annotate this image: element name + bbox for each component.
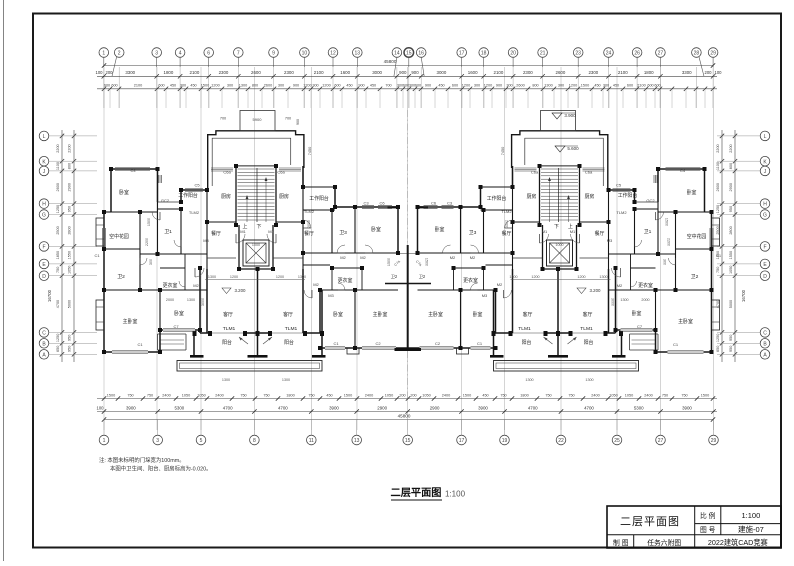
living room sliding doors TLM1 right-unit — [606, 332, 616, 334]
svg-text:2600: 2600 — [716, 183, 720, 191]
svg-text:H: H — [763, 202, 767, 208]
svg-text:950: 950 — [68, 206, 72, 212]
svg-text:更衣室: 更衣室 — [338, 277, 353, 284]
svg-text:14: 14 — [394, 51, 400, 57]
svg-text:2600: 2600 — [556, 70, 566, 75]
svg-text:M3: M3 — [607, 238, 613, 243]
svg-text:17: 17 — [459, 438, 465, 444]
svg-text:1500: 1500 — [201, 84, 209, 88]
svg-text:800: 800 — [68, 163, 72, 169]
svg-text:3000: 3000 — [372, 70, 382, 75]
svg-text:M1: M1 — [542, 229, 548, 234]
svg-text:950: 950 — [729, 206, 733, 212]
svg-text:M3: M3 — [203, 238, 209, 243]
svg-text:2600: 2600 — [264, 84, 272, 88]
left axis circles — [39, 131, 97, 359]
svg-text:2300: 2300 — [284, 70, 294, 75]
building plan right unit (mirrored) — [408, 111, 720, 372]
bottom overall dimension 45800 — [104, 419, 713, 421]
svg-text:C2: C2 — [435, 341, 441, 346]
bottom dimension coarse row — [97, 411, 717, 413]
svg-text:卧室: 卧室 — [333, 311, 343, 318]
svg-text:2: 2 — [118, 51, 121, 57]
svg-text:800: 800 — [252, 84, 258, 88]
svg-text:1500: 1500 — [107, 393, 115, 397]
svg-text:卫2: 卫2 — [691, 274, 699, 280]
svg-text:2000: 2000 — [307, 220, 311, 228]
svg-text:16700: 16700 — [741, 289, 746, 302]
svg-text:1200: 1200 — [303, 84, 311, 88]
svg-text:45800: 45800 — [398, 414, 411, 419]
svg-text:阳台: 阳台 — [222, 339, 232, 346]
svg-text:C4: C4 — [680, 168, 686, 173]
bottom dimension fine row — [97, 398, 717, 400]
svg-text:2300: 2300 — [219, 70, 229, 75]
svg-text:1500: 1500 — [387, 258, 391, 266]
svg-text:3900: 3900 — [126, 405, 136, 410]
svg-text:卧室: 卧室 — [119, 189, 129, 196]
page scan edge line — [3, 0, 5, 561]
building exterior walls right-unit — [704, 169, 706, 212]
svg-text:M3: M3 — [482, 293, 488, 298]
svg-text:C: C — [42, 331, 46, 337]
svg-text:TLM2: TLM2 — [189, 210, 200, 215]
svg-text:13: 13 — [355, 51, 361, 57]
svg-text:5900: 5900 — [253, 117, 263, 122]
dressing room mid left-unit — [332, 267, 362, 269]
svg-text:2200: 2200 — [145, 238, 149, 246]
svg-text:C1: C1 — [477, 341, 483, 346]
svg-text:卫2: 卫2 — [391, 274, 398, 279]
svg-text:2800: 2800 — [68, 226, 72, 234]
svg-text:空中花园: 空中花园 — [687, 233, 707, 240]
svg-text:卧室: 卧室 — [435, 226, 445, 233]
svg-text:1300: 1300 — [525, 378, 533, 382]
svg-text:M2: M2 — [313, 282, 319, 287]
svg-text:450: 450 — [613, 84, 619, 88]
svg-text:200: 200 — [410, 393, 416, 397]
svg-text:1050: 1050 — [422, 393, 430, 397]
svg-text:25: 25 — [614, 438, 620, 444]
svg-text:45800: 45800 — [384, 59, 397, 64]
svg-text:厨房: 厨房 — [279, 193, 289, 200]
svg-text:750: 750 — [240, 393, 246, 397]
svg-text:2900: 2900 — [430, 405, 440, 410]
svg-text:5000: 5000 — [68, 300, 72, 308]
svg-text:2100: 2100 — [314, 70, 324, 75]
svg-text:3.200: 3.200 — [235, 288, 247, 293]
svg-text:300: 300 — [180, 84, 186, 88]
svg-text:餐厅: 餐厅 — [595, 230, 605, 237]
svg-text:300: 300 — [149, 259, 153, 265]
bay window lower-left right-unit — [712, 300, 720, 330]
svg-text:D: D — [42, 274, 46, 280]
svg-text:1300: 1300 — [620, 298, 628, 302]
svg-text:2400: 2400 — [442, 393, 450, 397]
right dimension columns — [721, 130, 723, 362]
svg-text:1300: 1300 — [222, 378, 230, 382]
interior walls mid section right-unit — [512, 166, 514, 269]
svg-text:餐厅: 餐厅 — [304, 230, 314, 237]
svg-text:450: 450 — [438, 84, 444, 88]
svg-text:750: 750 — [500, 393, 506, 397]
left dimension columns — [61, 130, 63, 362]
svg-text:GC2: GC2 — [161, 198, 170, 203]
svg-text:2200: 2200 — [716, 144, 720, 152]
svg-text:300: 300 — [558, 84, 564, 88]
svg-text:200: 200 — [106, 70, 114, 75]
interior walls end section left-unit — [157, 202, 159, 254]
building bottom walls left-unit — [104, 351, 112, 353]
svg-text:7: 7 — [237, 51, 240, 57]
stair core bump right-unit — [512, 131, 608, 190]
svg-text:15: 15 — [405, 438, 411, 444]
svg-text:6: 6 — [207, 51, 210, 57]
svg-text:1600: 1600 — [340, 70, 350, 75]
svg-text:客厅: 客厅 — [283, 311, 293, 318]
svg-text:1250: 1250 — [716, 205, 720, 213]
svg-text:C6a: C6a — [585, 170, 593, 175]
svg-text:950: 950 — [729, 335, 733, 341]
svg-text:1500: 1500 — [581, 84, 589, 88]
svg-text:制 图: 制 图 — [613, 538, 629, 547]
columns right-unit — [703, 167, 707, 171]
svg-text:1200: 1200 — [531, 275, 539, 279]
svg-text:工作阳台: 工作阳台 — [618, 192, 638, 199]
windows left-unit — [115, 168, 150, 170]
svg-text:1800: 1800 — [286, 393, 294, 397]
svg-text:TLM2: TLM2 — [501, 209, 512, 214]
svg-text:900: 900 — [293, 84, 299, 88]
svg-text:5300: 5300 — [634, 405, 644, 410]
svg-text:卧室: 卧室 — [687, 189, 697, 196]
svg-text:3000: 3000 — [611, 298, 615, 306]
svg-text:TLM2: TLM2 — [304, 209, 315, 214]
svg-text:1550: 1550 — [68, 251, 72, 259]
svg-text:750: 750 — [263, 393, 269, 397]
svg-text:24: 24 — [606, 51, 612, 57]
svg-text:950: 950 — [68, 335, 72, 341]
svg-text:阳台: 阳台 — [522, 339, 532, 346]
svg-text:650: 650 — [56, 346, 60, 352]
svg-text:1:100: 1:100 — [742, 511, 761, 520]
svg-text:1800: 1800 — [644, 70, 654, 75]
svg-text:C1: C1 — [333, 341, 339, 346]
svg-text:1100: 1100 — [716, 162, 720, 170]
svg-text:19: 19 — [502, 438, 508, 444]
svg-text:750: 750 — [568, 393, 574, 397]
svg-text:29: 29 — [711, 438, 717, 444]
svg-text:1050: 1050 — [625, 393, 633, 397]
balcony walls right-unit — [621, 333, 623, 356]
svg-text:注: 本图未标明的门垛宽为100mm。: 注: 本图未标明的门垛宽为100mm。 — [99, 456, 185, 464]
svg-text:29: 29 — [710, 51, 716, 57]
svg-text:4700: 4700 — [223, 405, 233, 410]
svg-text:TLM1: TLM1 — [518, 326, 531, 332]
svg-text:F: F — [763, 245, 766, 251]
svg-text:2100: 2100 — [134, 84, 142, 88]
svg-text:200: 200 — [705, 70, 713, 75]
svg-text:1050: 1050 — [385, 393, 393, 397]
svg-text:TLM1: TLM1 — [580, 326, 593, 332]
svg-text:4700: 4700 — [584, 405, 594, 410]
svg-text:厨房: 厨房 — [221, 193, 231, 200]
svg-text:二层平面图: 二层平面图 — [391, 487, 442, 499]
svg-text:1500: 1500 — [344, 393, 352, 397]
svg-text:800: 800 — [729, 163, 733, 169]
level mark 3.900 above right core — [552, 113, 562, 119]
level mark 3.200 right living room — [577, 288, 586, 294]
svg-text:600: 600 — [111, 84, 117, 88]
svg-text:26: 26 — [634, 51, 640, 57]
svg-text:1300: 1300 — [599, 275, 607, 279]
svg-text:7450: 7450 — [501, 147, 505, 155]
svg-text:更衣室: 更衣室 — [163, 282, 178, 289]
top axis grid circles — [99, 48, 718, 77]
svg-text:2900: 2900 — [377, 405, 387, 410]
svg-text:M2: M2 — [360, 255, 366, 260]
svg-text:1250: 1250 — [56, 205, 60, 213]
svg-text:1850: 1850 — [56, 251, 60, 259]
svg-text:300: 300 — [312, 84, 318, 88]
svg-text:1250: 1250 — [716, 334, 720, 342]
svg-text:G: G — [42, 213, 46, 219]
windows right-unit — [666, 168, 701, 170]
svg-text:2500: 2500 — [56, 226, 60, 234]
svg-text:M2: M2 — [340, 255, 346, 260]
svg-text:1050: 1050 — [182, 393, 190, 397]
svg-text:3000: 3000 — [437, 70, 447, 75]
svg-text:2300: 2300 — [523, 70, 533, 75]
svg-text:1500: 1500 — [147, 218, 151, 226]
svg-text:3: 3 — [155, 51, 158, 57]
svg-text:27: 27 — [658, 51, 664, 57]
svg-text:工作阳台: 工作阳台 — [309, 195, 329, 202]
svg-text:4700: 4700 — [56, 300, 60, 308]
svg-text:100: 100 — [715, 70, 723, 75]
svg-text:23: 23 — [575, 51, 581, 57]
svg-text:1300: 1300 — [239, 84, 247, 88]
balcony door swing marks left-unit — [239, 337, 248, 344]
svg-text:28: 28 — [694, 51, 700, 57]
svg-text:本图中卫生间、阳台、厨房标高为-0.020。: 本图中卫生间、阳台、厨房标高为-0.020。 — [110, 465, 212, 473]
svg-text:1300: 1300 — [585, 378, 593, 382]
svg-text:9: 9 — [272, 51, 275, 57]
svg-text:M1: M1 — [268, 229, 274, 234]
building exterior walls left-unit — [110, 169, 112, 212]
svg-text:主卧室: 主卧室 — [123, 318, 138, 325]
svg-text:750: 750 — [147, 393, 153, 397]
svg-text:C: C — [763, 331, 767, 337]
svg-text:1200: 1200 — [577, 275, 585, 279]
svg-text:C5: C5 — [194, 183, 200, 188]
svg-text:200: 200 — [399, 393, 405, 397]
stairwell right-unit — [579, 166, 581, 225]
svg-text:11: 11 — [309, 438, 314, 444]
bay window lower-left left-unit — [96, 300, 104, 330]
lower mid bedroom walls right-unit — [491, 347, 496, 349]
svg-text:1050: 1050 — [729, 266, 733, 274]
svg-text:750: 750 — [545, 393, 551, 397]
svg-text:M2: M2 — [617, 283, 623, 288]
svg-text:3300: 3300 — [125, 70, 135, 75]
svg-text:更衣室: 更衣室 — [463, 277, 478, 284]
svg-text:H: H — [42, 202, 46, 208]
svg-text:750: 750 — [308, 393, 314, 397]
svg-text:18: 18 — [481, 51, 487, 57]
svg-text:L: L — [764, 134, 767, 140]
balcony walls left-unit — [193, 333, 195, 356]
svg-text:300: 300 — [603, 84, 609, 88]
svg-text:阳台: 阳台 — [284, 339, 294, 346]
top dimension row 2 (fine) — [97, 88, 717, 90]
svg-text:GC2: GC2 — [646, 198, 655, 203]
svg-text:C3: C3 — [363, 201, 369, 206]
svg-text:3900: 3900 — [478, 405, 488, 410]
svg-text:M3: M3 — [328, 293, 334, 298]
svg-text:1500: 1500 — [665, 218, 669, 226]
svg-text:5: 5 — [200, 438, 203, 444]
svg-text:厨房: 厨房 — [527, 193, 537, 200]
bay window upper-left left-unit — [96, 218, 104, 246]
vertical grid extension lines — [104, 67, 714, 430]
svg-text:卫3: 卫3 — [339, 230, 347, 236]
svg-text:1200: 1200 — [230, 275, 238, 279]
svg-text:M2: M2 — [450, 255, 456, 260]
svg-text:22: 22 — [558, 438, 564, 444]
svg-text:3900: 3900 — [682, 405, 692, 410]
svg-text:17: 17 — [459, 51, 465, 57]
svg-text:M2: M2 — [497, 282, 503, 287]
balcony door swing marks right-unit — [568, 337, 577, 344]
work balcony right of core right-unit — [512, 166, 514, 187]
svg-text:2100: 2100 — [494, 70, 504, 75]
svg-text:2300: 2300 — [588, 70, 598, 75]
svg-text:2200: 2200 — [729, 144, 733, 152]
svg-text:1200: 1200 — [276, 275, 284, 279]
top overall dimension line 45800 — [104, 65, 713, 67]
center party wall — [407, 245, 409, 349]
svg-text:客厅: 客厅 — [583, 311, 593, 318]
svg-text:2600: 2600 — [516, 84, 524, 88]
svg-text:600: 600 — [647, 84, 653, 88]
svg-text:450: 450 — [594, 84, 600, 88]
interior walls end section right-unit — [657, 202, 659, 254]
svg-text:5.600: 5.600 — [567, 146, 579, 151]
svg-text:工作阳台: 工作阳台 — [487, 195, 507, 202]
svg-text:300: 300 — [474, 84, 480, 88]
svg-text:C2: C2 — [375, 341, 381, 346]
svg-text:300: 300 — [278, 84, 284, 88]
center axis dash-dot line — [407, 110, 409, 245]
svg-text:3.200: 3.200 — [590, 288, 602, 293]
svg-text:15: 15 — [406, 51, 412, 57]
svg-text:M1: M1 — [240, 229, 246, 234]
level mark 5.600 right core — [555, 146, 565, 152]
svg-text:M2: M2 — [470, 255, 476, 260]
svg-text:1200: 1200 — [484, 84, 492, 88]
svg-text:1800: 1800 — [520, 393, 528, 397]
svg-text:2600: 2600 — [56, 183, 60, 191]
svg-text:600: 600 — [654, 84, 660, 88]
svg-text:C7: C7 — [637, 324, 643, 329]
canopy box above core right-unit — [541, 111, 576, 131]
svg-text:2100: 2100 — [637, 84, 645, 88]
stairwell left-unit — [235, 166, 237, 225]
svg-text:3: 3 — [156, 438, 159, 444]
svg-text:C6: C6 — [379, 201, 385, 206]
svg-text:G: G — [763, 213, 767, 219]
svg-text:1300: 1300 — [298, 275, 306, 279]
svg-text:600: 600 — [415, 84, 421, 88]
svg-text:餐厅: 餐厅 — [502, 230, 512, 237]
svg-text:1050: 1050 — [68, 266, 72, 274]
svg-text:750: 750 — [662, 393, 668, 397]
svg-text:600: 600 — [627, 84, 633, 88]
svg-text:2400: 2400 — [365, 393, 373, 397]
svg-text:TLM1: TLM1 — [223, 326, 236, 332]
svg-text:客厅: 客厅 — [523, 311, 533, 318]
svg-text:900: 900 — [496, 84, 502, 88]
svg-text:1200: 1200 — [322, 84, 330, 88]
svg-text:750: 750 — [127, 393, 133, 397]
svg-text:1500: 1500 — [701, 393, 709, 397]
svg-text:建施-07: 建施-07 — [738, 524, 764, 534]
bay window upper-left right-unit — [712, 218, 720, 246]
svg-text:1200: 1200 — [462, 84, 470, 88]
svg-text:750: 750 — [56, 267, 60, 273]
svg-text:450: 450 — [346, 84, 352, 88]
svg-text:1050: 1050 — [197, 393, 205, 397]
svg-text:8: 8 — [253, 438, 256, 444]
svg-text:2000: 2000 — [505, 220, 509, 228]
svg-text:卧室: 卧室 — [473, 311, 483, 318]
svg-text:4: 4 — [179, 51, 182, 57]
svg-text:950: 950 — [729, 346, 733, 352]
top dimension row 1 — [97, 75, 717, 77]
svg-text:16: 16 — [418, 51, 424, 57]
svg-text:下: 下 — [554, 224, 559, 230]
svg-text:C3: C3 — [447, 201, 453, 206]
stair arrows left-unit — [246, 196, 248, 222]
svg-text:1: 1 — [103, 438, 106, 444]
canopy box above core left-unit — [240, 111, 275, 131]
columns left-unit — [109, 167, 113, 171]
svg-text:12: 12 — [330, 51, 336, 57]
level mark 3.200 left living room — [222, 288, 231, 294]
svg-text:1000: 1000 — [555, 243, 563, 247]
title block — [607, 506, 781, 548]
svg-text:2900: 2900 — [68, 183, 72, 191]
dressing room mid right-unit — [454, 267, 484, 269]
svg-text:900: 900 — [399, 70, 407, 75]
svg-text:800: 800 — [532, 84, 538, 88]
svg-text:1800: 1800 — [164, 70, 174, 75]
svg-text:2400: 2400 — [644, 393, 652, 397]
svg-text:1250: 1250 — [56, 334, 60, 342]
svg-text:27: 27 — [658, 438, 664, 444]
svg-text:20: 20 — [510, 51, 516, 57]
room labels — [94, 168, 721, 347]
svg-text:300: 300 — [227, 84, 233, 88]
svg-text:1550: 1550 — [729, 251, 733, 259]
svg-text:TLM1: TLM1 — [285, 326, 298, 332]
svg-text:卫1: 卫1 — [164, 229, 172, 235]
svg-text:C7: C7 — [173, 324, 179, 329]
bottom axis circles — [99, 420, 718, 445]
svg-text:卫3: 卫3 — [469, 230, 477, 236]
svg-text:750: 750 — [681, 393, 687, 397]
